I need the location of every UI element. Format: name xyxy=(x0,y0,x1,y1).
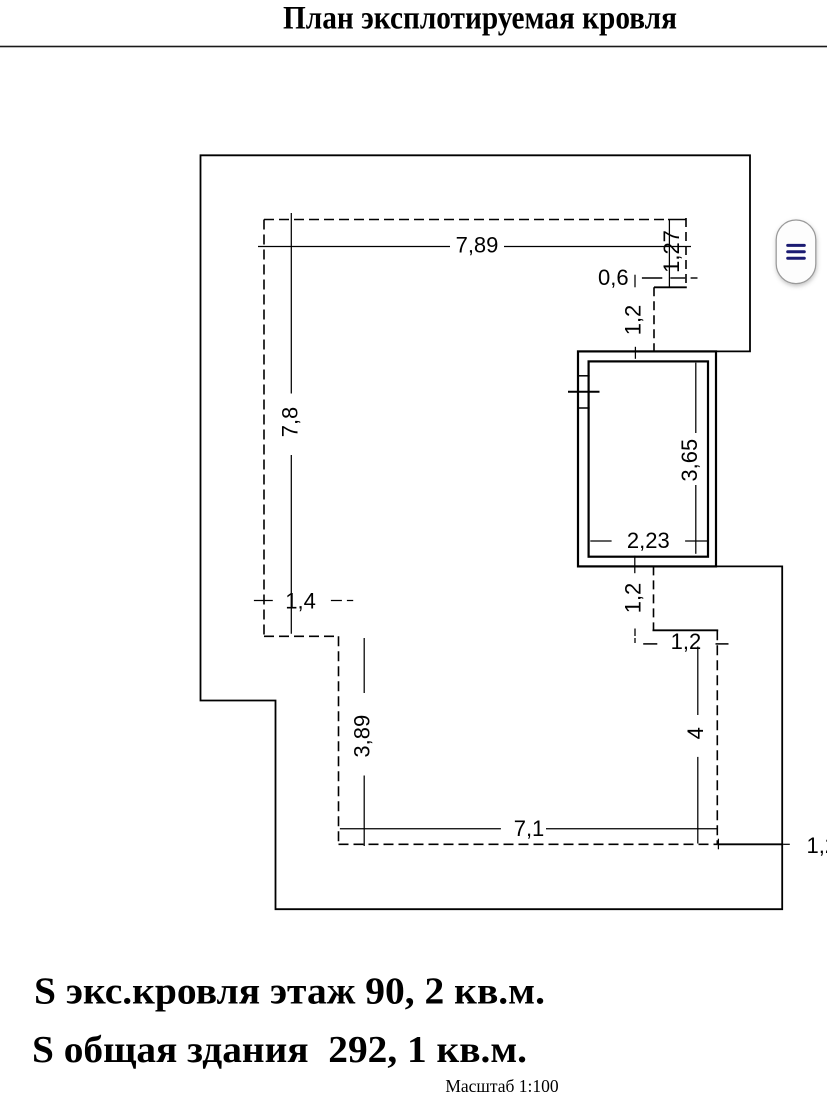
dashed boundary: lower left vertical (3,89) xyxy=(338,636,340,844)
dashed boundary: below stair (1,2) xyxy=(653,566,655,630)
dimension line 3,89 xyxy=(363,638,365,693)
svg-text:1,2: 1,2 xyxy=(621,583,646,614)
svg-text:2,23: 2,23 xyxy=(627,528,670,553)
dimension line 0,6 (dashed) xyxy=(642,277,662,279)
stair enclosure outer wall xyxy=(578,351,716,566)
tick crossing stair top wall xyxy=(634,347,636,359)
dashed boundary: left edge xyxy=(263,220,265,637)
dimension 0,6 extension tick xyxy=(634,275,636,288)
menu button (hamburger) xyxy=(776,220,816,284)
dimension line 1,4 (dashed) xyxy=(254,600,273,602)
dashed boundary: notch to stair (1,2) xyxy=(653,287,655,351)
svg-text:План эксплотируемая кровля: План эксплотируемая кровля xyxy=(283,1,677,37)
svg-text:S общая здания 292, 1 кв.м.: S общая здания 292, 1 кв.м. xyxy=(32,1029,527,1071)
window ticks on stair left wall xyxy=(568,391,600,393)
dimension line 7,89 xyxy=(258,246,450,248)
dashed boundary: 1,4 step xyxy=(264,635,339,637)
svg-text:7,89: 7,89 xyxy=(456,233,499,258)
dimension line 1,2 horizontal (dashed) xyxy=(634,629,636,644)
tick at boundary corner bottom right xyxy=(717,839,719,850)
svg-text:1,2: 1,2 xyxy=(807,833,827,858)
tick crossing stair bottom wall xyxy=(634,556,636,574)
svg-text:0,6: 0,6 xyxy=(598,265,629,290)
horizontal rule under title xyxy=(0,46,827,48)
svg-text:1,2: 1,2 xyxy=(621,305,646,336)
boundary notch bottom (0,6 step) xyxy=(654,286,687,288)
svg-text:1,4: 1,4 xyxy=(285,589,316,614)
svg-text:7,8: 7,8 xyxy=(278,407,303,438)
wall step below stair xyxy=(653,629,719,631)
dimension line 7,1 xyxy=(340,828,501,830)
svg-text:4: 4 xyxy=(683,727,708,739)
dashed boundary: notch right (1,27) xyxy=(685,218,687,287)
dimension line 3,65 xyxy=(695,363,697,433)
dashed boundary: bottom edge (7,1) xyxy=(339,843,718,845)
dimension line 4 xyxy=(697,647,699,716)
dimension line 2,23 xyxy=(590,540,611,542)
stair enclosure inner wall xyxy=(589,361,708,556)
wall segment bottom right xyxy=(717,843,783,845)
svg-text:1,27: 1,27 xyxy=(659,230,684,273)
dimension line 7,8 xyxy=(290,213,292,394)
svg-text:3,65: 3,65 xyxy=(677,439,702,482)
dim line 1,2 right extension xyxy=(783,843,790,845)
boundary top-right notch top xyxy=(668,219,686,221)
dashed boundary: right vertical (4) xyxy=(716,630,718,844)
outer wall outline xyxy=(201,155,783,909)
svg-text:1,2: 1,2 xyxy=(671,629,702,654)
svg-text:Масштаб 1:100: Масштаб 1:100 xyxy=(445,1076,559,1096)
svg-text:S экс.кровля этаж 90, 2 кв.м.: S экс.кровля этаж 90, 2 кв.м. xyxy=(34,971,545,1013)
dimension line 1,27 xyxy=(668,220,670,288)
svg-text:3,89: 3,89 xyxy=(350,715,375,758)
svg-text:7,1: 7,1 xyxy=(514,816,545,841)
dashed roof boundary: top edge xyxy=(264,219,668,221)
